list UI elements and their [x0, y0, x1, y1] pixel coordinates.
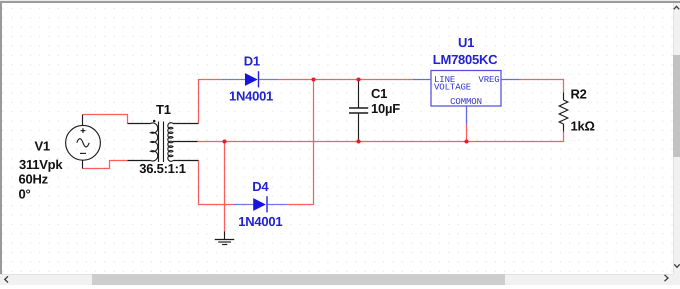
- wire V1 top to T1 primary top: [83, 115, 128, 124]
- wire D1 cathode to U1 input (top rail right): [279, 79, 414, 81]
- wire V1 bottom to T1 primary bottom: [83, 161, 128, 169]
- wire D4 cathode to D1 cathode node: [288, 80, 314, 205]
- scrollbar chevron left: [5, 276, 8, 282]
- regulator U1 box: [413, 71, 520, 125]
- svg-text:10µF: 10µF: [371, 101, 400, 116]
- wire U1 output to R2 top: [520, 80, 564, 93]
- capacitor C1: [349, 80, 368, 142]
- junction node C1 bottom: [356, 139, 360, 143]
- svg-text:COMMON: COMMON: [450, 97, 482, 107]
- svg-text:U1: U1: [458, 35, 474, 50]
- svg-text:0°: 0°: [19, 186, 31, 201]
- scrollbar chevron down: [674, 264, 679, 267]
- wire U1 common to bottom rail: [466, 125, 468, 142]
- scrollbar chevron up: [674, 6, 679, 9]
- scrollbar chevron right: [665, 275, 669, 281]
- svg-text:36.5:1:1: 36.5:1:1: [139, 161, 185, 176]
- wire R2 bottom to bottom rail: [198, 132, 564, 142]
- wire center tap to ground: [224, 142, 226, 232]
- svg-text:311Vpk: 311Vpk: [19, 157, 63, 172]
- transformer T1: [128, 120, 199, 162]
- svg-text:R2: R2: [571, 87, 587, 102]
- junction node ground branch: [222, 139, 226, 143]
- svg-text:1N4001: 1N4001: [229, 89, 273, 104]
- svg-text:1N4001: 1N4001: [238, 214, 282, 229]
- svg-text:1kΩ: 1kΩ: [571, 118, 595, 133]
- svg-text:D1: D1: [244, 54, 260, 69]
- svg-text:C1: C1: [371, 86, 387, 101]
- junction node C1 top: [356, 77, 360, 81]
- svg-text:VOLTAGE: VOLTAGE: [434, 83, 471, 93]
- svg-text:V1: V1: [35, 139, 50, 154]
- svg-text:T1: T1: [156, 102, 171, 117]
- svg-text:60Hz: 60Hz: [19, 172, 49, 187]
- diode D1: [222, 71, 279, 87]
- junction node D1/D4 cathodes: [311, 77, 315, 81]
- ground: [215, 232, 235, 245]
- resistor R2: [559, 93, 568, 132]
- wire T1 secondary top to D1 anode (top rail left): [199, 80, 223, 124]
- svg-text:VREG: VREG: [478, 75, 499, 85]
- svg-text:LM7805KC: LM7805KC: [433, 52, 498, 67]
- wire T1 secondary bottom to D4 anode: [199, 161, 234, 205]
- AC source V1: [66, 115, 101, 169]
- junction node U1 common: [464, 139, 468, 143]
- diode D4: [234, 196, 288, 212]
- svg-text:D4: D4: [252, 179, 269, 194]
